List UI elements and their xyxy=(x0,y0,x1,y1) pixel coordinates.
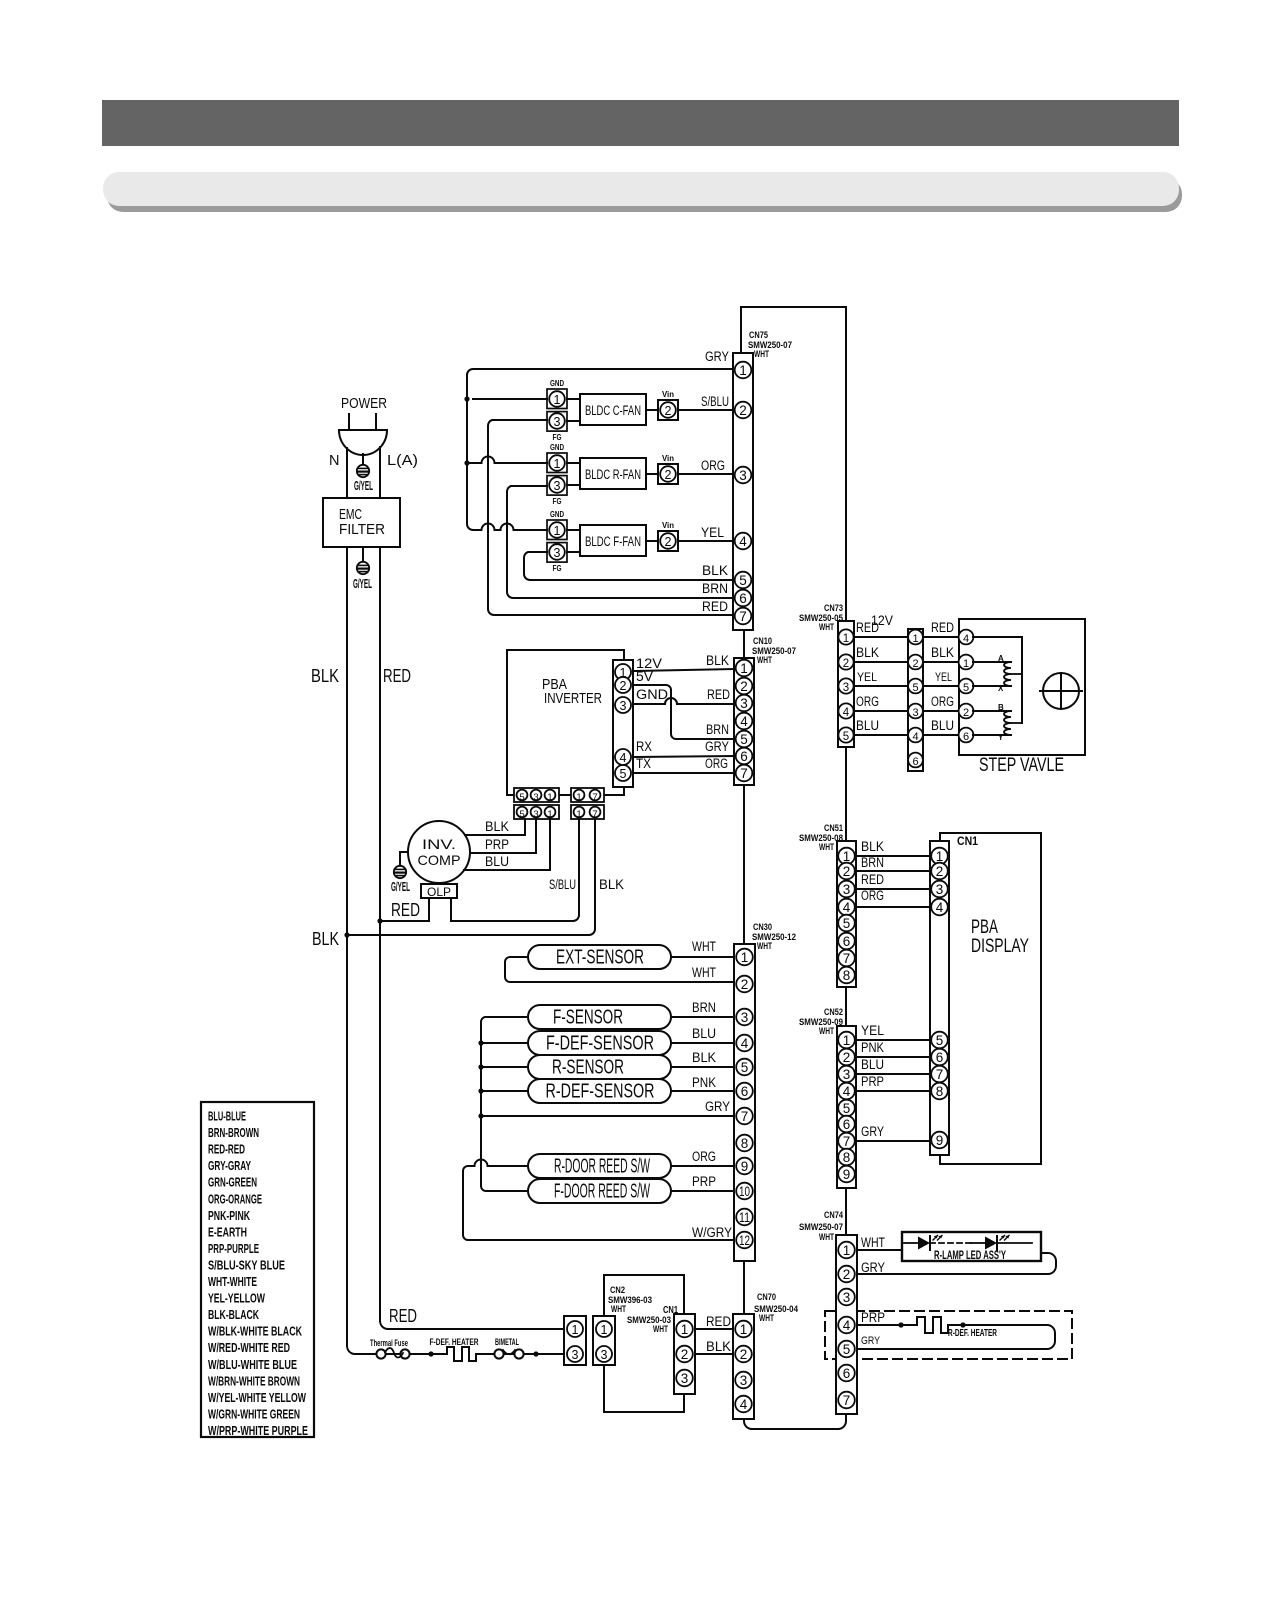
svg-text:STEP VAVLE: STEP VAVLE xyxy=(979,754,1064,776)
svg-text:YEL-YELLOW: YEL-YELLOW xyxy=(208,1292,265,1306)
svg-text:4: 4 xyxy=(741,1036,749,1051)
svg-text:7: 7 xyxy=(739,609,747,624)
svg-text:BLDC F-FAN: BLDC F-FAN xyxy=(585,534,641,549)
svg-text:W/BLU-WHITE BLUE: W/BLU-WHITE BLUE xyxy=(208,1358,297,1372)
svg-text:WHT: WHT xyxy=(759,1313,774,1324)
svg-text:W/GRN-WHITE GREEN: W/GRN-WHITE GREEN xyxy=(208,1407,300,1421)
svg-text:B: B xyxy=(998,703,1004,712)
svg-text:L(A): L(A) xyxy=(387,453,418,469)
svg-text:3: 3 xyxy=(843,882,851,897)
svg-text:7: 7 xyxy=(592,792,597,803)
svg-text:BLK: BLK xyxy=(485,819,509,834)
svg-text:8: 8 xyxy=(936,1084,944,1099)
svg-text:FILTER: FILTER xyxy=(339,521,385,538)
svg-text:6: 6 xyxy=(741,1084,749,1099)
svg-text:S/BLU: S/BLU xyxy=(701,394,729,409)
svg-text:PRP: PRP xyxy=(692,1174,716,1189)
svg-text:3: 3 xyxy=(601,1348,608,1362)
svg-text:DISPLAY: DISPLAY xyxy=(971,936,1029,957)
svg-text:3: 3 xyxy=(533,792,538,803)
svg-text:OLP: OLP xyxy=(427,887,451,899)
svg-text:S/BLU: S/BLU xyxy=(549,877,576,892)
svg-text:4: 4 xyxy=(843,900,851,915)
svg-text:1: 1 xyxy=(547,792,552,803)
svg-text:WHT: WHT xyxy=(754,349,769,360)
svg-text:BLU: BLU xyxy=(931,718,954,733)
svg-text:5: 5 xyxy=(843,916,851,931)
svg-text:6: 6 xyxy=(936,1050,944,1065)
svg-text:2: 2 xyxy=(665,535,672,549)
svg-text:6: 6 xyxy=(912,756,918,768)
svg-text:RED: RED xyxy=(383,665,411,686)
svg-text:BIMETAL: BIMETAL xyxy=(495,1337,519,1348)
svg-text:2: 2 xyxy=(740,679,748,694)
svg-text:7: 7 xyxy=(843,1134,851,1149)
svg-text:TX: TX xyxy=(636,756,651,771)
svg-text:1: 1 xyxy=(601,1323,608,1337)
svg-text:BLU: BLU xyxy=(856,718,879,733)
svg-text:BLU: BLU xyxy=(485,854,509,869)
svg-text:W/BLK-WHITE BLACK: W/BLK-WHITE BLACK xyxy=(208,1325,302,1339)
svg-text:PRP: PRP xyxy=(485,837,509,852)
svg-text:11: 11 xyxy=(739,1210,750,1225)
svg-text:WHT: WHT xyxy=(692,965,716,980)
svg-text:3: 3 xyxy=(740,696,748,711)
svg-text:RED: RED xyxy=(707,687,730,702)
svg-text:ORG: ORG xyxy=(856,694,879,709)
svg-text:GND: GND xyxy=(636,687,668,702)
svg-text:G/YEL: G/YEL xyxy=(353,576,372,591)
svg-text:2: 2 xyxy=(843,864,851,879)
svg-text:RED: RED xyxy=(931,620,954,635)
svg-text:R-LAMP LED ASS'Y: R-LAMP LED ASS'Y xyxy=(934,1250,1006,1262)
svg-text:RED: RED xyxy=(391,900,420,920)
svg-text:4: 4 xyxy=(620,751,627,765)
svg-text:ORG: ORG xyxy=(931,694,954,709)
svg-text:W/BRN-WHITE BROWN: W/BRN-WHITE BROWN xyxy=(208,1374,300,1388)
svg-text:5: 5 xyxy=(912,682,918,694)
svg-text:7: 7 xyxy=(740,766,748,781)
svg-text:BLU: BLU xyxy=(692,1026,716,1041)
svg-text:3: 3 xyxy=(681,1371,689,1386)
svg-text:5: 5 xyxy=(519,792,524,803)
svg-text:5: 5 xyxy=(843,1342,851,1357)
svg-text:GRY: GRY xyxy=(861,1124,884,1139)
svg-text:BLK: BLK xyxy=(311,665,340,686)
svg-text:5: 5 xyxy=(963,682,969,694)
svg-text:GRY: GRY xyxy=(705,349,729,364)
svg-text:4: 4 xyxy=(843,1318,851,1333)
svg-text:BLU: BLU xyxy=(861,1057,884,1072)
svg-text:3: 3 xyxy=(741,1010,749,1025)
svg-text:WHT: WHT xyxy=(819,1232,834,1243)
svg-text:W/GRY: W/GRY xyxy=(692,1225,732,1240)
svg-text:1: 1 xyxy=(912,633,918,645)
svg-text:ORG: ORG xyxy=(861,888,884,903)
svg-text:WHT: WHT xyxy=(861,1235,885,1250)
svg-text:Y: Y xyxy=(998,733,1004,742)
svg-text:4: 4 xyxy=(963,633,969,645)
svg-text:WHT: WHT xyxy=(819,842,834,853)
svg-text:PRP: PRP xyxy=(861,1310,885,1325)
svg-text:FG: FG xyxy=(553,564,562,573)
svg-text:BLK: BLK xyxy=(706,1339,731,1354)
svg-text:BLK: BLK xyxy=(599,877,624,892)
svg-text:BLK-BLACK: BLK-BLACK xyxy=(208,1308,259,1322)
svg-text:10: 10 xyxy=(739,1184,750,1199)
svg-text:1: 1 xyxy=(572,1323,579,1337)
svg-text:INV.: INV. xyxy=(422,836,456,852)
svg-text:WHT: WHT xyxy=(819,1026,834,1037)
svg-text:GND: GND xyxy=(550,443,564,452)
svg-text:2: 2 xyxy=(665,404,672,418)
svg-text:YEL: YEL xyxy=(857,670,877,684)
svg-text:3: 3 xyxy=(843,1290,851,1305)
svg-text:GND: GND xyxy=(550,379,564,388)
svg-text:RX: RX xyxy=(636,739,652,754)
svg-text:4: 4 xyxy=(739,534,747,549)
svg-text:5: 5 xyxy=(843,731,849,743)
svg-text:5: 5 xyxy=(843,1101,851,1116)
svg-text:PNK: PNK xyxy=(861,1040,884,1055)
svg-text:5: 5 xyxy=(741,1060,749,1075)
svg-text:6: 6 xyxy=(739,591,747,606)
svg-text:RED: RED xyxy=(706,1314,731,1329)
svg-text:3: 3 xyxy=(620,699,627,713)
svg-text:W/PRP-WHITE PURPLE: W/PRP-WHITE PURPLE xyxy=(208,1424,308,1438)
svg-text:YEL: YEL xyxy=(701,525,724,540)
svg-text:3: 3 xyxy=(554,415,561,429)
svg-text:GRY: GRY xyxy=(861,1260,885,1275)
svg-text:RED: RED xyxy=(861,872,884,887)
svg-text:BLK: BLK xyxy=(861,839,884,854)
svg-text:WHT: WHT xyxy=(757,655,772,666)
svg-text:1: 1 xyxy=(554,393,561,407)
svg-text:GRY-GRAY: GRY-GRAY xyxy=(208,1159,251,1173)
svg-text:1: 1 xyxy=(740,1322,748,1337)
svg-text:6: 6 xyxy=(740,749,748,764)
svg-text:G/YEL: G/YEL xyxy=(391,879,410,894)
svg-text:1: 1 xyxy=(554,457,561,471)
svg-text:GRN-GREEN: GRN-GREEN xyxy=(208,1176,257,1190)
svg-text:F-DOOR REED S/W: F-DOOR REED S/W xyxy=(554,1181,650,1203)
svg-text:9: 9 xyxy=(843,1167,851,1182)
svg-text:4: 4 xyxy=(936,900,944,915)
svg-text:1: 1 xyxy=(739,363,747,378)
svg-text:RED-RED: RED-RED xyxy=(208,1143,245,1157)
svg-text:WHT: WHT xyxy=(757,941,772,952)
svg-text:ORG: ORG xyxy=(701,458,725,473)
svg-text:4: 4 xyxy=(843,1084,851,1099)
svg-text:3: 3 xyxy=(554,546,561,560)
svg-text:ORG: ORG xyxy=(705,756,728,771)
svg-text:FG: FG xyxy=(553,433,562,442)
svg-text:BRN: BRN xyxy=(702,581,728,596)
svg-text:1: 1 xyxy=(741,950,749,965)
svg-text:2: 2 xyxy=(681,1347,689,1362)
svg-text:8: 8 xyxy=(741,1136,749,1151)
svg-text:7: 7 xyxy=(843,1393,851,1408)
svg-text:5: 5 xyxy=(620,767,627,781)
svg-text:BLK: BLK xyxy=(856,645,879,660)
svg-text:2: 2 xyxy=(739,403,747,418)
svg-text:R-SENSOR: R-SENSOR xyxy=(552,1057,624,1079)
svg-text:5V: 5V xyxy=(636,669,653,684)
svg-text:CN74: CN74 xyxy=(824,1210,844,1221)
svg-text:BLK: BLK xyxy=(931,645,954,660)
svg-text:6: 6 xyxy=(843,934,851,949)
svg-text:3: 3 xyxy=(936,882,944,897)
svg-text:GRY: GRY xyxy=(705,1099,730,1114)
svg-text:1: 1 xyxy=(936,849,944,864)
svg-text:2: 2 xyxy=(740,1347,748,1362)
svg-text:5: 5 xyxy=(936,1033,944,1048)
svg-text:1: 1 xyxy=(740,661,748,676)
svg-text:YEL: YEL xyxy=(935,672,952,684)
svg-text:INVERTER: INVERTER xyxy=(544,690,602,707)
svg-text:CN70: CN70 xyxy=(757,1292,776,1303)
svg-text:R-DOOR REED S/W: R-DOOR REED S/W xyxy=(554,1156,650,1178)
svg-text:2: 2 xyxy=(843,1267,851,1282)
svg-text:FG: FG xyxy=(553,497,562,506)
svg-text:2: 2 xyxy=(963,707,969,719)
svg-text:4: 4 xyxy=(740,714,748,729)
svg-text:RED: RED xyxy=(389,1306,417,1326)
svg-text:EXT-SENSOR: EXT-SENSOR xyxy=(556,947,644,969)
svg-text:4: 4 xyxy=(843,707,850,719)
svg-text:CN1: CN1 xyxy=(957,836,979,848)
svg-text:BLU-BLUE: BLU-BLUE xyxy=(208,1110,246,1124)
svg-text:2: 2 xyxy=(936,864,944,879)
svg-text:7: 7 xyxy=(843,951,851,966)
svg-text:BLK: BLK xyxy=(692,1050,716,1065)
svg-text:3: 3 xyxy=(843,1067,851,1082)
svg-text:4: 4 xyxy=(912,731,918,743)
svg-text:Vin: Vin xyxy=(662,454,674,463)
svg-text:2: 2 xyxy=(741,977,749,992)
svg-text:WHT: WHT xyxy=(653,1324,668,1335)
svg-text:YEL: YEL xyxy=(861,1023,884,1038)
svg-text:GND: GND xyxy=(550,510,564,519)
svg-text:1: 1 xyxy=(681,1322,689,1337)
svg-text:S/BLU-SKY BLUE: S/BLU-SKY BLUE xyxy=(208,1258,285,1272)
svg-text:WHT: WHT xyxy=(819,622,834,633)
svg-text:PRP-PURPLE: PRP-PURPLE xyxy=(208,1242,259,1256)
svg-text:BLDC C-FAN: BLDC C-FAN xyxy=(585,403,641,418)
svg-text:RED: RED xyxy=(856,620,879,635)
svg-text:X: X xyxy=(998,684,1004,693)
svg-text:PBA: PBA xyxy=(971,917,998,938)
svg-text:8: 8 xyxy=(843,1150,851,1165)
svg-text:5: 5 xyxy=(519,809,524,820)
svg-text:3: 3 xyxy=(554,479,561,493)
svg-text:PNK: PNK xyxy=(692,1075,716,1090)
svg-text:BLK: BLK xyxy=(706,653,729,668)
svg-text:2: 2 xyxy=(665,468,672,482)
svg-text:BLK: BLK xyxy=(312,928,340,949)
svg-text:WHT-WHITE: WHT-WHITE xyxy=(208,1275,257,1289)
svg-text:ORG: ORG xyxy=(692,1149,716,1164)
svg-text:2: 2 xyxy=(843,1050,851,1065)
svg-text:1: 1 xyxy=(576,792,581,803)
svg-text:9: 9 xyxy=(741,1159,749,1174)
svg-text:6: 6 xyxy=(843,1366,851,1381)
svg-text:PRP: PRP xyxy=(861,1074,884,1089)
svg-text:7: 7 xyxy=(936,1067,944,1082)
svg-text:W/YEL-WHITE YELLOW: W/YEL-WHITE YELLOW xyxy=(208,1391,306,1405)
svg-text:9: 9 xyxy=(936,1133,944,1148)
svg-text:ORG-ORANGE: ORG-ORANGE xyxy=(208,1192,262,1206)
svg-text:BRN: BRN xyxy=(692,1000,716,1015)
svg-text:N: N xyxy=(329,453,339,469)
svg-text:3: 3 xyxy=(740,1373,748,1388)
svg-text:WHT: WHT xyxy=(611,1304,626,1315)
svg-text:12: 12 xyxy=(739,1233,750,1248)
svg-text:R-DEF-SENSOR: R-DEF-SENSOR xyxy=(546,1081,655,1103)
svg-text:2: 2 xyxy=(912,658,918,670)
svg-text:A: A xyxy=(998,654,1004,663)
svg-text:BRN: BRN xyxy=(706,722,729,737)
svg-text:8: 8 xyxy=(843,968,851,983)
svg-text:G/YEL: G/YEL xyxy=(354,478,373,493)
svg-text:4: 4 xyxy=(740,1397,748,1412)
svg-text:W/RED-WHITE RED: W/RED-WHITE RED xyxy=(208,1341,290,1355)
svg-text:1: 1 xyxy=(843,1243,851,1258)
svg-text:2: 2 xyxy=(620,679,627,693)
svg-text:F-SENSOR: F-SENSOR xyxy=(553,1007,623,1029)
svg-text:5: 5 xyxy=(739,573,747,588)
svg-text:2: 2 xyxy=(843,658,849,670)
svg-text:GRY: GRY xyxy=(705,739,729,754)
svg-text:1: 1 xyxy=(554,524,561,538)
svg-text:BLK: BLK xyxy=(702,563,728,578)
svg-text:7: 7 xyxy=(741,1109,749,1124)
svg-text:1: 1 xyxy=(843,1033,851,1048)
svg-text:BLDC R-FAN: BLDC R-FAN xyxy=(585,467,641,482)
svg-text:GRY: GRY xyxy=(861,1335,881,1347)
svg-text:Vin: Vin xyxy=(662,521,674,530)
svg-text:5: 5 xyxy=(740,732,748,747)
svg-text:3: 3 xyxy=(572,1348,579,1362)
svg-text:R-DEF. HEATER: R-DEF. HEATER xyxy=(948,1328,998,1339)
svg-text:F-DEF-SENSOR: F-DEF-SENSOR xyxy=(546,1033,654,1055)
svg-text:PNK-PINK: PNK-PINK xyxy=(208,1209,250,1223)
svg-text:6: 6 xyxy=(963,731,969,743)
svg-text:1: 1 xyxy=(843,633,849,645)
svg-text:Vin: Vin xyxy=(662,390,674,399)
svg-text:BRN: BRN xyxy=(861,855,884,870)
svg-text:6: 6 xyxy=(843,1117,851,1132)
svg-text:BRN-BROWN: BRN-BROWN xyxy=(208,1126,259,1140)
svg-text:3: 3 xyxy=(739,468,747,483)
svg-text:RED: RED xyxy=(702,599,728,614)
svg-text:1: 1 xyxy=(963,658,969,670)
svg-text:1: 1 xyxy=(843,849,851,864)
svg-text:POWER: POWER xyxy=(341,395,387,412)
svg-text:COMP: COMP xyxy=(418,852,461,868)
svg-text:3: 3 xyxy=(843,682,849,694)
svg-text:E-EARTH: E-EARTH xyxy=(208,1225,247,1239)
svg-text:WHT: WHT xyxy=(692,939,716,954)
svg-text:3: 3 xyxy=(912,707,918,719)
